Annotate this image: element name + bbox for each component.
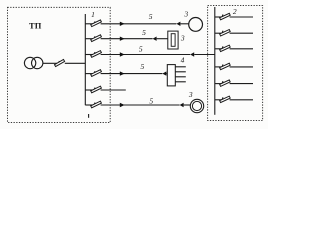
board row2 stub	[215, 32, 222, 34]
switch QS0 contact tick	[58, 61, 59, 64]
feeder row1 stub	[85, 23, 94, 25]
feeder row4 stub	[85, 73, 94, 75]
board row4 wire	[230, 66, 253, 68]
feeder row2 stub	[85, 38, 94, 40]
board row1 switch tick	[222, 15, 223, 19]
board row3 switch blade	[220, 45, 231, 51]
board row4 switch blade	[220, 63, 231, 69]
arrow row2 right	[120, 37, 125, 41]
feeder row3 switch blade	[91, 51, 102, 58]
board row3 wire	[230, 48, 253, 50]
feeder row6 stub	[85, 104, 94, 106]
svg-text:5: 5	[142, 28, 146, 37]
enclosure TP substation dashed box	[8, 7, 111, 122]
feeder row4 switch blade	[91, 70, 102, 77]
arrow row3 left	[190, 52, 194, 56]
busbar TP	[84, 14, 86, 105]
panel pin 1	[175, 66, 186, 68]
board row5 switch tick	[222, 81, 223, 85]
busbar board	[214, 7, 216, 115]
board row4 stub	[215, 66, 222, 68]
board row3 switch tick	[222, 46, 223, 50]
wire switch to bus	[65, 62, 86, 64]
board row2 switch tick	[222, 31, 223, 35]
arrow row4 left	[162, 71, 166, 75]
feeder row2 switch tick	[94, 36, 95, 40]
feeder row3 stub	[85, 54, 94, 56]
panel pin 4	[175, 81, 186, 83]
svg-text:3: 3	[180, 34, 185, 43]
feeder row4 switch tick	[94, 71, 95, 75]
transformer T winding 2	[32, 57, 43, 68]
arrow row1 right	[120, 22, 125, 26]
device box inner rect	[171, 34, 175, 47]
wire transformer to switch	[43, 62, 59, 64]
wire row1 to lamp	[180, 23, 188, 25]
arrow row4 right	[120, 71, 125, 75]
wire row6 to motor	[184, 104, 191, 106]
board row1 stub	[215, 16, 222, 18]
feeder row1 switch blade	[91, 20, 102, 27]
arrow row6 right	[120, 103, 125, 107]
wire row4	[101, 73, 163, 75]
board row1 switch blade	[220, 13, 231, 19]
wire row5	[101, 89, 126, 91]
svg-text:5: 5	[149, 97, 153, 106]
panel pin 3	[175, 76, 186, 78]
svg-text:5: 5	[139, 45, 143, 54]
arrow row2 left	[153, 37, 157, 41]
wire row3	[101, 54, 191, 56]
svg-text:1: 1	[91, 10, 95, 19]
panel rect load	[167, 65, 175, 86]
feeder row6 switch tick	[94, 103, 95, 107]
svg-text:3: 3	[188, 90, 193, 99]
lamp circle load	[189, 18, 203, 32]
board row6 switch blade	[220, 96, 231, 102]
wire row2	[101, 38, 153, 40]
feeder row5 switch blade	[91, 86, 102, 93]
svg-text:ТП: ТП	[29, 21, 42, 31]
feeder row1 switch tick	[94, 21, 95, 25]
board row5 switch blade	[220, 80, 231, 86]
board row6 stub	[215, 99, 222, 101]
board row4 switch tick	[222, 64, 223, 68]
wire row1	[101, 23, 177, 25]
feeder row6 switch blade	[91, 101, 102, 108]
svg-text:4: 4	[181, 56, 185, 65]
board row6 wire	[230, 99, 253, 101]
svg-text:5: 5	[141, 62, 145, 71]
board row5 stub	[215, 83, 222, 85]
svg-text:5: 5	[149, 12, 153, 21]
svg-text:3: 3	[183, 9, 188, 18]
panel pin 2	[175, 71, 186, 73]
board row1 wire	[230, 16, 253, 18]
board row5 wire	[230, 83, 253, 85]
feeder row2 switch blade	[91, 35, 102, 42]
arrow row1 left	[176, 22, 180, 26]
device box outer rect	[168, 31, 178, 49]
wire row6	[101, 104, 180, 106]
motor outer circle	[190, 99, 203, 112]
wire row4 to panel	[166, 73, 167, 75]
board row2 wire	[230, 32, 253, 34]
stray bus mark	[88, 114, 90, 118]
svg-text:2: 2	[233, 7, 237, 16]
enclosure distribution board dashed box	[208, 6, 263, 121]
feeder row5 switch tick	[94, 88, 95, 92]
switch QS0 blade	[54, 59, 64, 66]
feeder row5 stub	[85, 89, 94, 91]
motor inner circle	[192, 101, 201, 110]
transformer T winding 1	[24, 57, 35, 68]
wire row3 to right bus	[194, 54, 215, 56]
board row6 switch tick	[222, 97, 223, 101]
arrow row3 right	[120, 52, 125, 56]
wire row2 to box	[157, 38, 168, 40]
board row2 switch blade	[220, 30, 231, 36]
arrow row6 left	[180, 103, 184, 107]
board row3 stub	[215, 48, 222, 50]
feeder row3 switch tick	[94, 52, 95, 56]
